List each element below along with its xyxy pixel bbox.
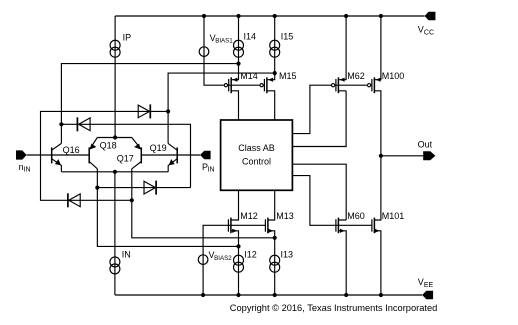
wire emitter bus (Q16/Q19 emitters to IN) [61, 171, 168, 173]
wire M60/M101 gates from Class AB box [292, 176, 372, 226]
svg-text:M13: M13 [276, 211, 294, 221]
svg-text:M12: M12 [240, 211, 258, 221]
wire Q17 collector down to M13 source [132, 169, 275, 238]
svg-text:Copyright © 2016, Texas Instru: Copyright © 2016, Texas Instruments Inco… [230, 303, 437, 313]
transistor M12 (NMOS) [228, 190, 257, 246]
VCC terminal arrow [425, 12, 436, 21]
svg-text:Q18: Q18 [100, 140, 117, 150]
svg-text:EE: EE [424, 282, 434, 289]
svg-text:M62: M62 [347, 71, 365, 81]
Class AB Control box [221, 120, 293, 190]
wire PIN to Q17/Q19 bases [141, 154, 200, 156]
VEE terminal arrow [422, 291, 433, 300]
svg-text:M14: M14 [240, 71, 258, 81]
transistor M100 (PMOS) [368, 16, 405, 156]
current source I14 [234, 16, 257, 64]
voltage source VBIAS1 [199, 16, 264, 85]
svg-text:Out: Out [418, 140, 433, 150]
svg-text:M100: M100 [382, 71, 405, 81]
svg-text:Q17: Q17 [117, 154, 134, 164]
wire M62 drain to Class AB box [292, 91, 346, 147]
wire outer loop left (diode rows 1 and 3) [41, 111, 168, 200]
current source IP [110, 16, 131, 138]
svg-text:IN: IN [208, 166, 215, 173]
diode D4 (row 4, pointing right) [144, 181, 156, 195]
voltage source VBIAS2 [198, 225, 265, 295]
current source I12 [234, 246, 257, 295]
wire emitter roof (Q17/Q18 emitters to IP) [97, 137, 132, 139]
diode D2 (row 2, pointing left) [77, 117, 90, 131]
svg-text:Control: Control [242, 157, 271, 167]
PIN input terminal arrow [200, 151, 211, 160]
svg-text:BIAS2: BIAS2 [214, 255, 232, 262]
svg-text:CC: CC [424, 29, 434, 36]
svg-text:IN: IN [122, 250, 131, 260]
svg-text:M15: M15 [279, 71, 297, 81]
svg-text:IN: IN [24, 166, 31, 173]
VCC top rail wire [115, 15, 424, 17]
diode D3 (row 3, pointing left) [68, 193, 80, 207]
nIN input terminal arrow [16, 150, 27, 159]
svg-text:Class AB: Class AB [238, 143, 275, 153]
svg-text:I13: I13 [281, 250, 294, 260]
wire Q18 collector down to M12 source [97, 169, 238, 247]
node Out wire [381, 155, 424, 157]
svg-text:M60: M60 [347, 211, 365, 221]
transistor Q19 (NPN) [150, 143, 178, 172]
Out terminal arrow [423, 151, 435, 160]
svg-text:I15: I15 [281, 31, 294, 41]
transistor M13 (NMOS) [265, 190, 293, 238]
wire Q16 collector to I14/M14 node [61, 64, 238, 144]
svg-text:IP: IP [123, 32, 132, 42]
wire diode row 4 [97, 187, 190, 189]
transistor M101 (NMOS) [372, 156, 404, 295]
svg-text:Q19: Q19 [150, 143, 167, 153]
transistor M15 (PMOS) [260, 71, 297, 120]
transistor Q16 (NPN) [52, 143, 80, 171]
current source I15 [270, 16, 294, 73]
svg-text:I12: I12 [244, 250, 257, 260]
transistor M62 (PMOS) [332, 16, 365, 93]
transistor M60 (NMOS) [336, 211, 365, 295]
transistor M14 (PMOS) [224, 64, 258, 120]
VEE bottom rail wire [115, 294, 422, 296]
svg-text:I14: I14 [244, 31, 257, 41]
wire Q19 collector to I15/M15 node [168, 73, 275, 143]
transistor Q18 (PNP) [89, 138, 116, 169]
svg-text:M101: M101 [382, 211, 405, 221]
svg-text:Q16: Q16 [63, 145, 80, 155]
wire diode row 2 [61, 124, 190, 187]
wire nIN to Q16/Q18 bases [27, 154, 90, 156]
current source IN [110, 172, 131, 295]
transistor Q17 (PNP) [117, 138, 142, 169]
wire Class AB box to M60 drain [292, 164, 346, 220]
svg-text:BIAS1: BIAS1 [215, 38, 233, 45]
current source I13 [270, 238, 293, 295]
wire M62/M100 gates from Class AB box [292, 85, 372, 133]
diode D1 (row 1, pointing right) [138, 104, 150, 118]
